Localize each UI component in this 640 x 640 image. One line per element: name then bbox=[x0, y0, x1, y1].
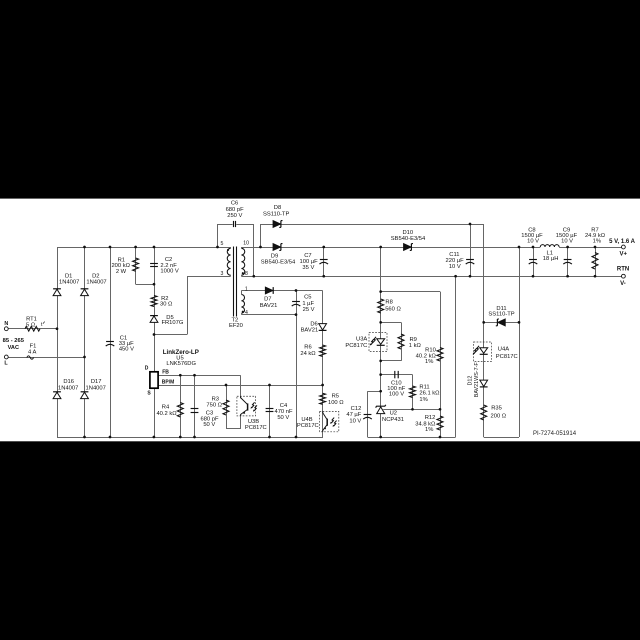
svg-text:5: 5 bbox=[221, 241, 224, 247]
svg-text:47 µF: 47 µF bbox=[346, 412, 361, 418]
svg-text:4: 4 bbox=[245, 310, 248, 316]
svg-text:LNK576DG: LNK576DG bbox=[166, 361, 196, 367]
svg-text:30 Ω: 30 Ω bbox=[160, 302, 173, 308]
svg-text:C5: C5 bbox=[304, 295, 311, 301]
svg-text:750 Ω: 750 Ω bbox=[206, 403, 222, 409]
svg-text:D: D bbox=[145, 365, 149, 371]
svg-text:D12: D12 bbox=[467, 376, 473, 386]
svg-text:1N4007: 1N4007 bbox=[86, 279, 106, 285]
svg-text:24 kΩ: 24 kΩ bbox=[300, 351, 316, 357]
svg-text:1%: 1% bbox=[425, 359, 433, 365]
svg-text:26.1 kΩ: 26.1 kΩ bbox=[419, 391, 440, 397]
svg-text:N: N bbox=[4, 321, 8, 327]
svg-text:1%: 1% bbox=[593, 239, 601, 245]
svg-text:C6: C6 bbox=[231, 201, 238, 207]
svg-text:50 V: 50 V bbox=[277, 415, 289, 421]
svg-text:450 V: 450 V bbox=[119, 347, 134, 353]
svg-text:R4: R4 bbox=[162, 404, 170, 410]
svg-text:2 W: 2 W bbox=[116, 269, 127, 275]
svg-text:85 - 265: 85 - 265 bbox=[3, 338, 25, 344]
svg-text:D16: D16 bbox=[63, 379, 74, 385]
svg-text:10 V: 10 V bbox=[349, 418, 361, 424]
svg-text:C12: C12 bbox=[351, 406, 362, 412]
svg-text:4 A: 4 A bbox=[28, 350, 37, 356]
svg-text:40.2 kΩ: 40.2 kΩ bbox=[156, 411, 177, 417]
svg-text:1N4007: 1N4007 bbox=[58, 386, 78, 392]
svg-text:5 Ω: 5 Ω bbox=[26, 323, 36, 329]
svg-text:100 Ω: 100 Ω bbox=[328, 400, 344, 406]
svg-text:680 pF: 680 pF bbox=[226, 207, 245, 213]
svg-text:250 V: 250 V bbox=[227, 213, 242, 219]
svg-text:35 V: 35 V bbox=[302, 265, 314, 271]
svg-text:25 V: 25 V bbox=[303, 307, 315, 313]
svg-text:BP/M: BP/M bbox=[162, 379, 175, 385]
svg-text:10 V: 10 V bbox=[527, 239, 539, 245]
svg-text:R35: R35 bbox=[491, 405, 502, 411]
svg-text:1000 V: 1000 V bbox=[160, 269, 179, 275]
svg-text:8: 8 bbox=[245, 271, 248, 277]
svg-text:1: 1 bbox=[245, 286, 248, 292]
svg-text:R5: R5 bbox=[332, 394, 339, 400]
svg-text:1 µF: 1 µF bbox=[302, 301, 314, 307]
svg-text:RTN: RTN bbox=[617, 267, 629, 273]
svg-text:200 Ω: 200 Ω bbox=[491, 413, 507, 419]
svg-text:EF20: EF20 bbox=[229, 323, 243, 329]
svg-text:BAV21WS-7-F: BAV21WS-7-F bbox=[474, 362, 480, 398]
svg-text:10 V: 10 V bbox=[561, 239, 573, 245]
svg-text:NCP431: NCP431 bbox=[382, 417, 404, 423]
svg-text:R10: R10 bbox=[425, 347, 436, 353]
svg-text:5 V, 1.6 A: 5 V, 1.6 A bbox=[609, 239, 636, 245]
svg-text:1%: 1% bbox=[425, 427, 433, 433]
svg-text:PC817C: PC817C bbox=[496, 354, 518, 360]
svg-text:10: 10 bbox=[243, 241, 249, 247]
svg-text:SB540-E3/54: SB540-E3/54 bbox=[261, 260, 296, 266]
svg-text:560 Ω: 560 Ω bbox=[385, 306, 401, 312]
svg-text:10 V: 10 V bbox=[449, 264, 461, 270]
svg-text:U3A: U3A bbox=[356, 336, 367, 342]
svg-text:V-: V- bbox=[620, 281, 626, 287]
svg-text:PC817C: PC817C bbox=[245, 425, 267, 431]
svg-text:U2: U2 bbox=[390, 411, 397, 417]
svg-text:F1: F1 bbox=[30, 344, 37, 350]
svg-text:RT1: RT1 bbox=[26, 316, 37, 322]
svg-text:1%: 1% bbox=[419, 397, 427, 403]
svg-text:R11: R11 bbox=[419, 384, 429, 390]
svg-text:D6: D6 bbox=[310, 321, 317, 327]
svg-text:BAV21: BAV21 bbox=[260, 303, 278, 309]
svg-text:100 V: 100 V bbox=[389, 392, 404, 398]
svg-text:D7: D7 bbox=[264, 297, 271, 303]
svg-text:PI-7274-051914: PI-7274-051914 bbox=[533, 431, 577, 437]
svg-text:1N4007: 1N4007 bbox=[86, 386, 106, 392]
svg-text:PC817C: PC817C bbox=[297, 423, 319, 429]
svg-text:R8: R8 bbox=[385, 300, 392, 306]
svg-text:50 V: 50 V bbox=[203, 422, 215, 428]
svg-text:V+: V+ bbox=[620, 251, 628, 257]
svg-text:R6: R6 bbox=[304, 345, 311, 351]
svg-text:3: 3 bbox=[221, 271, 224, 277]
svg-text:PC817C: PC817C bbox=[345, 343, 367, 349]
svg-text:SS110-TP: SS110-TP bbox=[488, 311, 514, 317]
svg-text:D17: D17 bbox=[91, 379, 102, 385]
svg-text:R3: R3 bbox=[212, 396, 219, 402]
svg-text:U4A: U4A bbox=[498, 346, 509, 352]
svg-text:18 µH: 18 µH bbox=[543, 256, 559, 262]
svg-text:FR107G: FR107G bbox=[161, 320, 183, 326]
svg-text:D8: D8 bbox=[274, 205, 281, 211]
svg-text:1N4007: 1N4007 bbox=[59, 279, 79, 285]
svg-text:FB: FB bbox=[162, 369, 169, 375]
svg-text:SS110-TP: SS110-TP bbox=[263, 211, 289, 217]
svg-text:VAC: VAC bbox=[8, 345, 19, 351]
svg-text:BAV21: BAV21 bbox=[301, 328, 319, 334]
svg-text:SB540-E3/54: SB540-E3/54 bbox=[391, 236, 426, 242]
svg-text:U4B: U4B bbox=[301, 417, 312, 423]
svg-text:1 kΩ: 1 kΩ bbox=[409, 343, 422, 349]
svg-text:R12: R12 bbox=[425, 415, 436, 421]
